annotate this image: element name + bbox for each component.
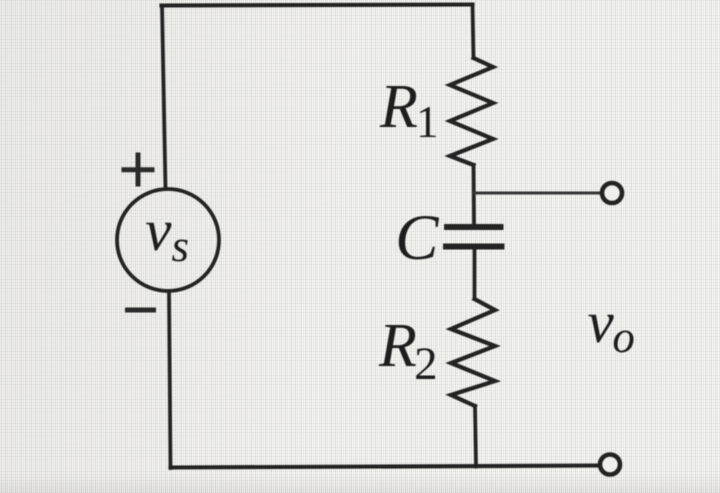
- label R1 subscript 1: [416, 100, 439, 145]
- capacitor C top plate: [447, 224, 501, 230]
- source vs circle: [117, 189, 219, 291]
- wire left upper: [162, 6, 166, 190]
- wire node to output top: [474, 192, 601, 195]
- label vo subscript o: [612, 315, 635, 360]
- capacitor C bottom plate: [446, 244, 502, 250]
- resistor R1: [450, 58, 493, 165]
- terminal top: [602, 183, 622, 203]
- plus sign: [122, 153, 155, 187]
- wire C to R2: [473, 250, 477, 300]
- label C: [395, 206, 438, 271]
- label R2 letter R: [379, 315, 417, 377]
- resistor R2: [451, 299, 495, 406]
- wire right upper: [473, 5, 474, 59]
- terminal bottom: [600, 455, 620, 475]
- label R2 subscript 2: [414, 341, 438, 388]
- wire top: [162, 5, 473, 6]
- label vo letter v: [588, 293, 614, 352]
- label vs letter v: [145, 201, 171, 260]
- wire R1 to node: [472, 165, 476, 224]
- wire left lower: [169, 291, 171, 468]
- label vs subscript s: [172, 224, 190, 269]
- label R1 letter R: [380, 76, 418, 138]
- wire bottom: [171, 466, 599, 468]
- wire R2 to bottom: [475, 406, 476, 467]
- minus sign: [125, 308, 156, 313]
